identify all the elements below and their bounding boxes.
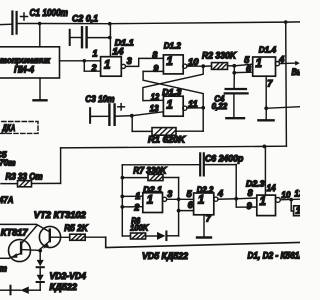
svg-text:2: 2 bbox=[91, 63, 97, 73]
svg-text:КТ817: КТ817 bbox=[1, 227, 29, 237]
svg-text:100K: 100K bbox=[130, 222, 149, 232]
pin14 drop wire to D2.3 bbox=[264, 146, 266, 195]
capacitor C6 bbox=[122, 153, 243, 175]
svg-text:D1.1: D1.1 bbox=[115, 37, 134, 47]
svg-text:D1.2: D1.2 bbox=[164, 41, 181, 51]
receiver box PI-4 bbox=[0, 47, 60, 78]
svg-text:8: 8 bbox=[152, 50, 157, 60]
wire D1.2 out bbox=[187, 65, 203, 67]
node C2/pin14 bbox=[108, 36, 112, 40]
transistor VT2 KT3102 bbox=[39, 226, 60, 249]
svg-text:C2 0,1: C2 0,1 bbox=[72, 13, 98, 24]
bracket to pin9 bbox=[236, 199, 257, 207]
output arrow right bbox=[280, 61, 309, 77]
wire to pin6 D1.4 bbox=[233, 66, 235, 73]
svg-text:1: 1 bbox=[296, 205, 300, 216]
svg-text:топриемник: топриемник bbox=[0, 55, 51, 65]
svg-text:1: 1 bbox=[198, 195, 204, 207]
diode VD5 bbox=[146, 232, 179, 241]
wire pin13 bbox=[132, 112, 164, 116]
resistor R5 bbox=[64, 223, 106, 240]
D1.1 output bubble bbox=[121, 64, 125, 68]
op-gate D1.4 bbox=[253, 57, 276, 76]
svg-text:1: 1 bbox=[256, 58, 262, 70]
svg-text:Вых: Вых bbox=[292, 67, 301, 77]
svg-text:12: 12 bbox=[294, 188, 300, 198]
svg-text:4: 4 bbox=[217, 188, 223, 198]
wire to pin5 D1.4 bbox=[234, 64, 252, 66]
R7 right drop bbox=[178, 178, 180, 236]
wire D1.1 out to D1.2 bbox=[126, 58, 164, 66]
bracket to D2.4 bbox=[291, 200, 293, 211]
transistor VT1 collector bbox=[21, 225, 37, 244]
resistor R1 bbox=[132, 108, 203, 145]
svg-text:14: 14 bbox=[267, 183, 276, 193]
op-gate D2.2 bbox=[194, 193, 214, 215]
collector rail VT1 VT2 bbox=[0, 224, 49, 231]
D2.1 output bubble bbox=[163, 197, 167, 201]
svg-text:C6 2400p: C6 2400p bbox=[205, 153, 244, 163]
ground under PI-4 bbox=[34, 78, 47, 100]
diodes VD2-VD4 chain bbox=[37, 251, 44, 291]
svg-text:2: 2 bbox=[133, 202, 139, 212]
svg-text:m: m bbox=[0, 263, 7, 273]
wire D2.3 out bbox=[280, 198, 300, 201]
op-gate D1.1 bbox=[101, 57, 122, 76]
svg-text:D1.4: D1.4 bbox=[259, 45, 277, 55]
op-gate D2.4 fragment bbox=[294, 205, 301, 216]
long supply wire middle bbox=[61, 146, 287, 148]
capacitor C5 labels left edge bbox=[0, 150, 16, 168]
wire D1.1 inputs bbox=[60, 59, 101, 71]
pin 14 stem bbox=[109, 24, 111, 57]
resistor R3 bbox=[1, 172, 61, 187]
svg-text:10: 10 bbox=[281, 190, 290, 200]
diode VD1 bottom left bbox=[0, 286, 40, 295]
wire down from R3 corner bbox=[60, 148, 62, 184]
svg-text:VT2 КТ3102: VT2 КТ3102 bbox=[34, 210, 87, 220]
svg-text:8: 8 bbox=[248, 188, 253, 198]
D2.1 input wires bbox=[122, 195, 143, 197]
svg-text:VD5 КД522: VD5 КД522 bbox=[142, 251, 189, 261]
svg-text:1: 1 bbox=[93, 49, 98, 59]
D2.3 output bubble bbox=[276, 198, 281, 203]
op-gate D2.3 bbox=[257, 195, 276, 216]
svg-text:C3 10m: C3 10m bbox=[85, 94, 115, 105]
svg-text:9: 9 bbox=[247, 201, 252, 211]
svg-text:ПИ-4: ПИ-4 bbox=[14, 64, 35, 74]
wire pin6 bbox=[179, 210, 194, 212]
capacitor C2 bbox=[70, 13, 110, 47]
dashed box DKA bbox=[0, 122, 38, 134]
D2.2 output bubble bbox=[214, 197, 218, 201]
svg-text:C1 1000m: C1 1000m bbox=[30, 8, 69, 19]
pin 7 D2.2 ground bbox=[197, 214, 212, 238]
svg-text:12: 12 bbox=[151, 92, 160, 102]
node A vertical bbox=[121, 165, 123, 236]
svg-text:1: 1 bbox=[260, 196, 266, 208]
op-gate D2.1 bbox=[143, 193, 163, 213]
svg-text:КД522: КД522 bbox=[50, 282, 78, 292]
pin 7 D1.4 to ground bbox=[258, 76, 300, 120]
svg-text:470m: 470m bbox=[0, 157, 16, 167]
capacitor C4 bbox=[212, 73, 248, 118]
svg-text:14: 14 bbox=[112, 47, 123, 57]
transistor VT1 KT817 bbox=[0, 240, 31, 262]
node junction C1 bbox=[38, 22, 42, 26]
resistor R6 bbox=[122, 216, 149, 239]
resistor R2 bbox=[202, 51, 237, 70]
wire to receiver box bbox=[39, 24, 41, 47]
svg-text:1: 1 bbox=[104, 60, 110, 72]
resistor R7 bbox=[122, 166, 178, 181]
op-gate D1.3 bbox=[163, 96, 183, 116]
svg-text:7: 7 bbox=[267, 78, 273, 88]
D1.2 output bubble bbox=[183, 64, 187, 68]
C6 right drop bbox=[235, 165, 237, 199]
svg-text:47А: 47А bbox=[0, 195, 14, 205]
op-gate D1.2 bbox=[163, 55, 183, 74]
svg-text:3: 3 bbox=[127, 56, 132, 66]
svg-text:VD2-VD4: VD2-VD4 bbox=[50, 271, 87, 281]
VT2 base wire to R5 bbox=[51, 236, 70, 238]
capacitor C3 bbox=[85, 94, 132, 125]
wire to D2.3 pin8 bbox=[236, 197, 257, 200]
wire D2.2 out bbox=[218, 198, 236, 200]
svg-text:1: 1 bbox=[166, 56, 172, 68]
svg-text:1: 1 bbox=[135, 191, 140, 201]
wire D1.3 out bbox=[187, 107, 203, 109]
svg-text:R5 2K: R5 2K bbox=[64, 223, 89, 233]
VT1 base wire bbox=[22, 249, 40, 252]
D1.3 output bubble bbox=[183, 106, 187, 110]
svg-text:1: 1 bbox=[147, 195, 153, 207]
cross-coupling wires RS latch bbox=[143, 66, 203, 108]
capacitor C1 bbox=[0, 8, 68, 34]
wire supply rail top bbox=[18, 22, 300, 24]
svg-text:5: 5 bbox=[187, 189, 193, 199]
wire D2.1 out to D2.2 bbox=[167, 198, 194, 200]
svg-text:0,22: 0,22 bbox=[212, 101, 228, 111]
D1.4 output bubble bbox=[275, 62, 279, 66]
svg-text:1: 1 bbox=[166, 99, 172, 111]
svg-text:3: 3 bbox=[167, 189, 172, 199]
svg-text:D1, D2 - К561ЛА7: D1, D2 - К561ЛА7 bbox=[248, 250, 301, 260]
long output wire bottom bbox=[106, 237, 300, 247]
svg-text:ДКА: ДКА bbox=[2, 123, 16, 133]
supply rail vertical right bbox=[285, 22, 288, 146]
wire pin9 bbox=[143, 70, 163, 72]
svg-text:R2 330K: R2 330K bbox=[202, 51, 237, 61]
svg-text:R1 620K: R1 620K bbox=[148, 134, 186, 144]
